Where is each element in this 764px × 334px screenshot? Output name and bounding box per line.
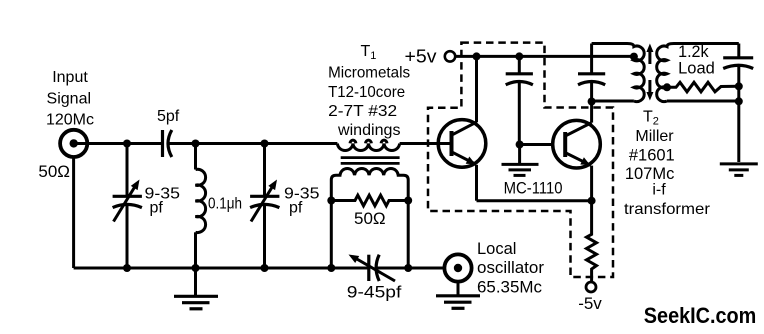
svg-text:#1601: #1601 [629,147,675,165]
svg-text:transformer: transformer [624,201,711,218]
svg-text:0.1μh: 0.1μh [208,196,242,213]
svg-text:+5v: +5v [405,47,437,67]
svg-text:Miller: Miller [635,128,674,145]
svg-text:65.35Mc: 65.35Mc [477,279,542,297]
svg-text:107Mc: 107Mc [625,165,675,183]
svg-text:windings: windings [337,122,401,139]
svg-text:1.2k: 1.2k [678,43,709,61]
svg-text:oscillator: oscillator [477,259,545,277]
svg-text:Signal: Signal [47,91,91,108]
svg-text:SeekIC.com: SeekIC.com [644,303,757,328]
svg-text:Local: Local [477,240,516,258]
svg-text:T12-10core: T12-10core [328,84,405,101]
svg-text:50Ω: 50Ω [354,209,386,228]
svg-text:50Ω: 50Ω [38,162,70,181]
svg-text:pf: pf [150,200,164,217]
svg-text:120Mc: 120Mc [46,112,94,129]
svg-text:9-45pf: 9-45pf [347,283,402,302]
svg-text:Load: Load [678,60,715,78]
svg-text:Input: Input [52,69,88,86]
svg-text:i-f: i-f [652,182,666,199]
svg-text:MC-1110: MC-1110 [504,179,563,198]
svg-text:Micrometals: Micrometals [328,65,410,82]
svg-text:5pf: 5pf [157,108,180,125]
svg-text:2-7T #32: 2-7T #32 [328,103,397,120]
svg-text:pf: pf [289,200,303,217]
svg-text:-5v: -5v [578,294,602,313]
